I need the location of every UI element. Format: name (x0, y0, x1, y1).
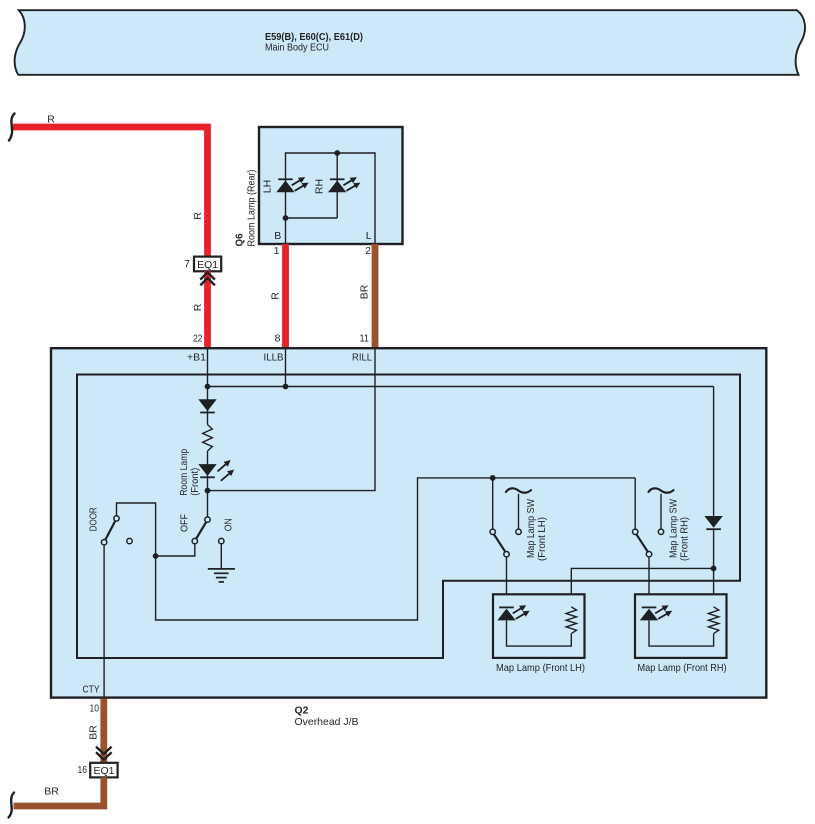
ground (208, 569, 235, 582)
wire R (from Main Body ECU) (13, 114, 208, 257)
svg-text:EQ1: EQ1 (197, 259, 218, 271)
resistor (map lamp RH) (708, 607, 718, 634)
wire to DOOR contact (117, 503, 156, 556)
junction diode/resistor feed (711, 566, 717, 572)
junction RILL/room lamp (205, 488, 211, 494)
svg-text:Main Body ECU: Main Body ECU (265, 42, 329, 54)
wire OFF to common node (156, 544, 195, 556)
label DOOR (88, 507, 100, 531)
pin +B1 (187, 352, 206, 364)
switch Map Lamp SW (Front RH) (633, 478, 652, 557)
svg-text:EQ1: EQ1 (93, 765, 114, 777)
pin B (274, 230, 282, 257)
svg-text:Overhead J/B: Overhead J/B (295, 716, 359, 728)
svg-text:16: 16 (78, 764, 88, 776)
label Q6 Room Lamp (Rear) (234, 170, 258, 247)
svg-text:(Front LH): (Front LH) (536, 517, 548, 561)
inner circuit board outline (Q2) (77, 375, 740, 659)
label Map Lamp SW (Front RH) (668, 499, 691, 561)
wire (Q6 internal) (286, 153, 376, 244)
svg-text:ON: ON (223, 518, 235, 531)
shield chevron (above EQ1 bottom) (96, 747, 112, 760)
svg-text:RILL: RILL (352, 352, 372, 364)
label ON (223, 518, 235, 531)
wire SW LH to map lamp (506, 557, 508, 608)
label LH (261, 180, 273, 193)
diode D2 (illumination) (704, 516, 722, 529)
lamp Map Lamp (Front RH) box (635, 594, 727, 658)
junction (Q6 top) (334, 150, 340, 156)
svg-text:L: L (366, 230, 372, 242)
wire SW RH to map lamp (648, 557, 650, 608)
contact DOOR upper (114, 516, 119, 521)
junction ILLB/bus (283, 384, 289, 390)
label Room Lamp (Front) (178, 449, 201, 496)
diode D1 (room lamp front feed) (198, 399, 216, 412)
squiggle contact (map lamp SW RH) (649, 488, 674, 534)
wire continuation squiggle (top left) (9, 114, 15, 141)
LED room lamp front (198, 460, 234, 481)
svg-text:BR: BR (44, 786, 59, 798)
svg-text:(Front): (Front) (189, 468, 201, 496)
contact DOOR lower (101, 540, 106, 545)
wire (map lamp LH internal) (507, 620, 572, 646)
label Q2 Overhead J/B (295, 705, 359, 728)
wire RILL branch (208, 348, 376, 491)
wire continuation squiggle (bottom left) (9, 793, 15, 818)
svg-text:(Front RH): (Front RH) (679, 517, 691, 561)
pin RILL (352, 352, 372, 364)
pin L (365, 230, 372, 257)
svg-text:R: R (192, 303, 204, 311)
LED RH (room lamp rear) (328, 177, 360, 192)
svg-text:+B1: +B1 (187, 352, 206, 364)
wire R (EQ1 to Q2 pin 22) (192, 271, 207, 348)
switch room lamp (common pivot) (205, 517, 210, 522)
svg-text:RH: RH (314, 179, 326, 194)
LED map lamp front LH (497, 605, 529, 620)
svg-text:2: 2 (365, 245, 371, 257)
wire bus to diode D2 (713, 387, 715, 607)
svg-text:Q6: Q6 (234, 233, 246, 246)
junction +B1/bus (205, 384, 211, 390)
svg-text:Room Lamp (Rear): Room Lamp (Rear) (246, 170, 258, 247)
wire (map lamp RH internal) (649, 620, 714, 646)
svg-text:Q2: Q2 (295, 705, 309, 717)
junction box Q2 Overhead J/B (51, 348, 766, 697)
wire ON to ground (220, 544, 222, 568)
wire BR (Q2 pin 10 to EQ1) (87, 699, 103, 763)
svg-text:R: R (270, 292, 282, 300)
shield chevron (below EQ1) (200, 272, 215, 285)
junction map lamp SW LH feed (490, 475, 496, 481)
resistor (map lamp LH) (566, 607, 576, 634)
svg-text:8: 8 (275, 333, 281, 345)
connector EQ1 pin 7 (184, 257, 221, 272)
pin CTY (83, 683, 100, 714)
squiggle contact (map lamp SW LH) (506, 488, 531, 534)
svg-text:ILLB: ILLB (264, 352, 284, 364)
svg-text:OFF: OFF (178, 514, 190, 532)
component Q6 Room Lamp (Rear) box (259, 127, 403, 244)
resistor (room lamp front) (203, 425, 213, 451)
junction common node (153, 553, 159, 559)
label RH (314, 179, 326, 194)
lamp Map Lamp (Front LH) box (493, 594, 585, 658)
svg-text:LH: LH (261, 180, 273, 193)
svg-text:Map Lamp (Front RH): Map Lamp (Front RH) (638, 662, 727, 674)
svg-text:1: 1 (274, 245, 280, 257)
svg-text:BR: BR (359, 284, 371, 299)
svg-text:R: R (192, 212, 204, 220)
svg-text:CTY: CTY (83, 683, 100, 695)
label Map Lamp (Front LH) (496, 662, 585, 674)
label Map Lamp SW (Front LH) (525, 499, 548, 561)
svg-text:DOOR: DOOR (88, 507, 100, 531)
label Map Lamp (Front RH) (638, 662, 727, 674)
connector EQ1 pin 16 (78, 763, 118, 778)
wire common node to map lamp switches (156, 478, 636, 620)
svg-text:22: 22 (193, 333, 203, 345)
wire +B1 branch (207, 348, 209, 517)
contact ON (219, 538, 224, 543)
pin ILLB (264, 352, 284, 364)
switch blade (to OFF) (196, 522, 206, 539)
svg-text:10: 10 (90, 703, 100, 715)
wire BR (EQ1 out) (14, 777, 104, 806)
switch Map Lamp SW (Front LH) (490, 478, 509, 557)
contact OFF (192, 538, 197, 543)
wire R (Q6 pin 1 to Q2 pin 8) (270, 244, 286, 348)
contact middle (unused) (127, 538, 132, 543)
LED LH (room lamp rear) (276, 177, 308, 192)
wire DOOR contact to CTY pin (103, 545, 105, 697)
label OFF (178, 514, 190, 532)
LED map lamp front RH (640, 605, 672, 620)
svg-text:Map Lamp (Front LH): Map Lamp (Front LH) (496, 662, 585, 674)
wire BR (Q6 pin 2 to Q2 pin 11) (359, 244, 375, 348)
svg-text:BR: BR (87, 725, 99, 740)
wire bus (+B1 to diode drop) (208, 348, 714, 387)
Main Body ECU band E59(B)/E60(C)/E61(D) (15, 10, 805, 75)
junction (Q6 bottom left) (283, 215, 289, 221)
svg-text:11: 11 (360, 333, 370, 345)
svg-text:R: R (47, 114, 55, 126)
wire resistor feed (to LH map lamp) (571, 568, 713, 606)
svg-text:B: B (274, 230, 281, 242)
switch blade DOOR (105, 521, 115, 540)
svg-text:7: 7 (184, 258, 190, 270)
